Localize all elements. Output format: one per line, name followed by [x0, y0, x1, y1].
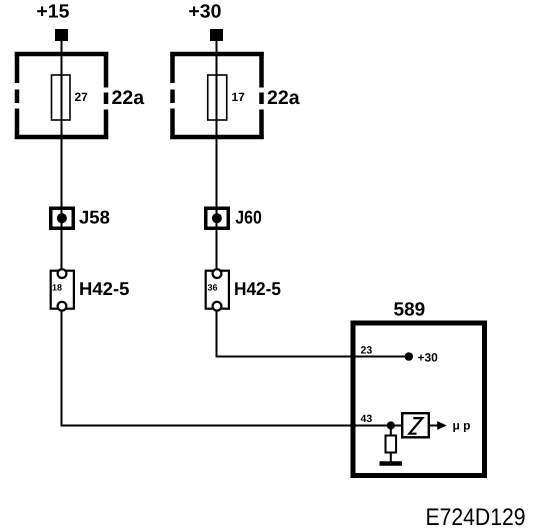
connector H42-5 pin 18 (left): [51, 269, 74, 310]
ground: [380, 461, 403, 466]
svg-text:E724D129: E724D129: [426, 504, 526, 531]
hysteresis symbol inside U1: [409, 418, 422, 434]
fuse 27: [52, 75, 71, 120]
svg-text:+30: +30: [418, 351, 439, 365]
svg-text:μ p: μ p: [453, 419, 471, 433]
svg-text:17: 17: [232, 90, 246, 104]
wire: H42-5 pin18 down and right to 589 pin 43: [62, 310, 402, 426]
wire: +30 terminal down through fuse box to J60: [216, 41, 218, 270]
schmitt trigger box U1: [402, 413, 429, 437]
svg-text:23: 23: [361, 345, 373, 357]
connector J60: [206, 208, 229, 228]
terminal square +15: [55, 29, 68, 41]
svg-text:22a: 22a: [267, 87, 300, 109]
fuse box 22a (right) dashed enclosure: [170, 52, 263, 139]
wire: +15 terminal down through fuse box to J58: [61, 41, 63, 270]
node dot +30 inside 589: [405, 352, 414, 361]
terminal square +30: [210, 29, 223, 41]
resistor R1: [386, 436, 397, 453]
svg-text:36: 36: [208, 283, 218, 293]
svg-text:H42-5: H42-5: [79, 278, 129, 299]
svg-text:22a: 22a: [112, 87, 145, 109]
svg-text:+15: +15: [36, 2, 69, 23]
svg-text:27: 27: [75, 90, 89, 104]
ECU box 589: [353, 323, 485, 476]
wire: resistor to ground: [390, 453, 392, 463]
svg-text:43: 43: [361, 413, 373, 425]
connector H42-5 pin 36 (right): [206, 269, 229, 310]
svg-text:H42-5: H42-5: [234, 278, 281, 299]
connector J58: [51, 208, 74, 228]
svg-text:+30: +30: [188, 2, 221, 23]
arrowhead to microprocessor: [437, 421, 447, 430]
svg-text:J58: J58: [79, 207, 110, 228]
fuse 17: [208, 75, 227, 120]
junction dot pin 43: [387, 421, 395, 429]
fuse box 22a (left) dashed enclosure: [15, 52, 108, 139]
wire: H42-5 pin36 down and right to 589 pin 23: [217, 310, 410, 357]
wire: junction down to resistor: [390, 426, 392, 437]
svg-text:18: 18: [52, 283, 62, 293]
wire: U1 output to arrow: [429, 425, 438, 427]
svg-text:589: 589: [394, 300, 426, 321]
svg-text:J60: J60: [235, 207, 261, 228]
